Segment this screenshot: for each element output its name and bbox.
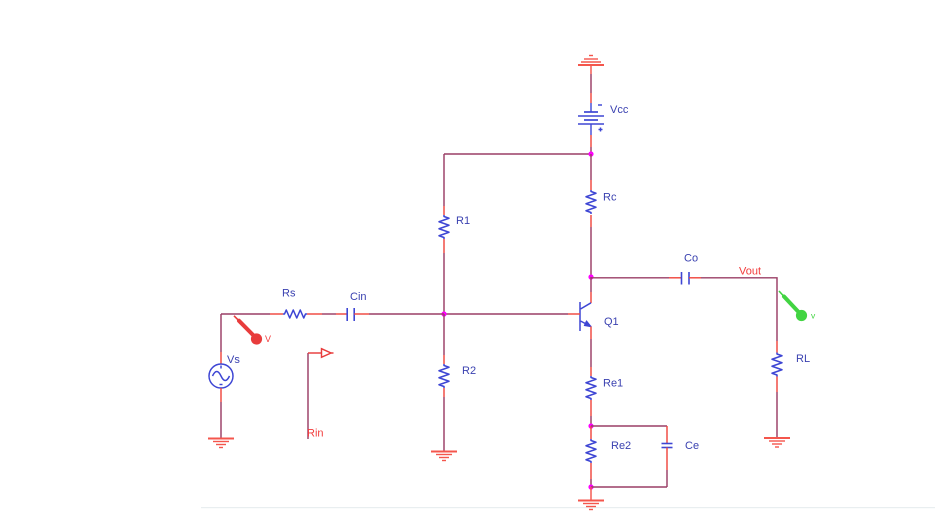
resistor RL (772, 353, 782, 377)
capacitor Ce (662, 444, 673, 448)
ground (top, above Vcc battery) (578, 56, 604, 66)
wire Rs right lead (307, 313, 322, 315)
resistor Re2 (586, 439, 596, 463)
wire Co right lead (689, 277, 701, 279)
wire emitter lead down (590, 327, 592, 377)
svg-text:Co: Co (684, 253, 698, 265)
wire battery to top rail (590, 135, 592, 154)
svg-text:R2: R2 (462, 365, 476, 377)
wire top rail (444, 153, 591, 155)
svg-text:Ce: Ce (685, 440, 699, 452)
battery plus sign (599, 128, 603, 132)
wire Vs bottom to ground (220, 388, 222, 439)
battery minus sign (598, 104, 602, 106)
wire input node to base (444, 313, 568, 315)
wire Re1 to emitter node (590, 400, 592, 426)
transistor Q1 (580, 302, 591, 331)
capacitor Cin (347, 308, 354, 321)
junction node input/base (441, 311, 446, 316)
capacitor Co (682, 272, 690, 285)
svg-text:R1: R1 (456, 215, 470, 227)
source Vs (AC) (209, 364, 233, 388)
wire Rs to Cin (322, 313, 336, 315)
wire base lead (568, 313, 580, 315)
resistor R2 (439, 364, 449, 388)
wire input corner above Vs (221, 313, 270, 315)
wire R2 to ground (443, 388, 445, 452)
svg-text:Vout: Vout (739, 266, 761, 278)
wire ground to battery (590, 65, 592, 103)
resistor Rc (586, 190, 596, 214)
wire Cin left lead (336, 313, 347, 315)
wire node down to R2 (443, 314, 445, 364)
resistor Re1 (586, 376, 596, 400)
junction node Re2 bottom / ground (588, 484, 593, 489)
wire collector node to Q1 collector (590, 277, 592, 303)
junction node at rail / Vcc (588, 151, 593, 156)
wire Rs left lead (270, 313, 283, 315)
svg-text:Re1: Re1 (603, 378, 623, 390)
resistor Rs (283, 310, 307, 318)
svg-text:Vs: Vs (227, 354, 240, 366)
svg-text:Rc: Rc (603, 192, 617, 204)
wire Co to output corner (701, 278, 777, 341)
probe V (green, output) (779, 291, 807, 321)
wire Re2 top lead (590, 426, 592, 439)
wire Cin to input node (369, 313, 444, 315)
ground (below RL) (764, 438, 790, 447)
wire Ce bottom lead (666, 448, 668, 488)
transistor Q1 emitter arrow (584, 321, 591, 327)
ground (below R2) (431, 452, 457, 461)
probe V (red, input) (234, 316, 262, 345)
svg-text:Rin: Rin (307, 428, 324, 440)
wire bottom of Ce branch (591, 486, 667, 488)
svg-text:Re2: Re2 (611, 440, 631, 452)
wire bottom node to ground (590, 487, 592, 501)
ground (below Re2) (578, 501, 604, 510)
wire Ce top lead (666, 426, 668, 444)
ground (below Vs) (208, 439, 234, 448)
wire rail corner down to R1 (443, 154, 445, 215)
svg-text:Vcc: Vcc (610, 104, 629, 116)
junction node emitter/Re2/Ce (588, 423, 593, 428)
wire rail down to Rc (590, 154, 592, 190)
wire R1 to input node (443, 239, 445, 314)
svg-text:V: V (265, 334, 271, 344)
wire Vs top (220, 314, 222, 364)
wire Cin right lead (354, 313, 369, 315)
svg-text:RL: RL (796, 353, 810, 365)
svg-text:Cin: Cin (350, 291, 367, 303)
svg-text:Q1: Q1 (604, 316, 619, 328)
wire RL to ground (776, 377, 778, 439)
wire RL top lead (776, 341, 778, 353)
decorative bottom hairline (201, 507, 935, 508)
wire collector node to Co (591, 277, 669, 279)
wire top of Ce branch (591, 425, 667, 427)
svg-text:Rs: Rs (282, 288, 296, 300)
resistor R1 (439, 215, 449, 239)
wire Rc to collector node (590, 215, 592, 277)
wire Co left lead (669, 277, 682, 279)
probe Rin (input impedance arrow) (308, 349, 334, 439)
battery Vcc (578, 103, 604, 135)
wire Re2 to bottom node (590, 463, 592, 487)
junction node collector (588, 274, 593, 279)
